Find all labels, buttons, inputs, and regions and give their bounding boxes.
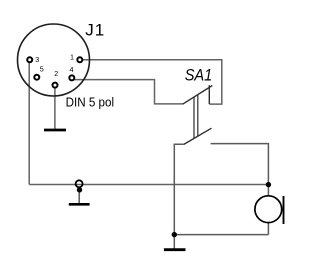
ground below pin 2	[44, 129, 66, 132]
wire long bottom horizontal	[29, 184, 268, 186]
svg-text:J1: J1	[85, 21, 105, 40]
switch SA1 upper lever	[183, 86, 213, 105]
svg-text:5: 5	[40, 65, 44, 74]
wire junction to microphone top	[267, 185, 269, 196]
ground lower right	[164, 248, 186, 251]
microphone body	[255, 196, 282, 223]
wire lower switch left down	[174, 144, 184, 234]
junction node right	[266, 182, 271, 187]
wire pin1 to switch right terminal	[83, 60, 222, 104]
switch SA1 linkage left line	[193, 97, 195, 138]
pin 4	[69, 75, 74, 80]
ground below socket	[69, 203, 90, 206]
pin 2	[53, 83, 58, 88]
wire lower switch right to junction	[211, 144, 269, 185]
wire microphone bottom	[267, 223, 269, 235]
junction dot under socket	[77, 187, 82, 192]
wire socket to ground	[78, 187, 80, 203]
pin 5	[34, 75, 39, 80]
pin 1	[77, 57, 82, 62]
switch SA1 upper right stub	[208, 85, 210, 104]
svg-text:DIN 5 pol: DIN 5 pol	[66, 94, 115, 109]
svg-text:2: 2	[54, 69, 58, 78]
wire lower horizontal to mic bottom	[174, 234, 268, 236]
connector J1 body circle	[18, 24, 90, 96]
wire pin3 down left side	[28, 62, 30, 184]
svg-text:3: 3	[35, 55, 39, 64]
wire pin4 to switch left terminal	[74, 80, 183, 104]
junction node lower	[172, 232, 177, 237]
svg-text:1: 1	[70, 53, 74, 62]
socket pin on bottom wire	[76, 180, 83, 187]
svg-text:4: 4	[70, 65, 74, 74]
pin 3	[27, 57, 32, 62]
microphone electrode bar	[283, 196, 285, 224]
switch SA1 lower lever	[184, 128, 212, 144]
svg-text:SA1: SA1	[185, 67, 213, 85]
switch SA1 linkage right line	[197, 95, 199, 136]
wire junction to ground lower right	[173, 235, 175, 249]
wire pin2 to ground	[54, 88, 56, 129]
